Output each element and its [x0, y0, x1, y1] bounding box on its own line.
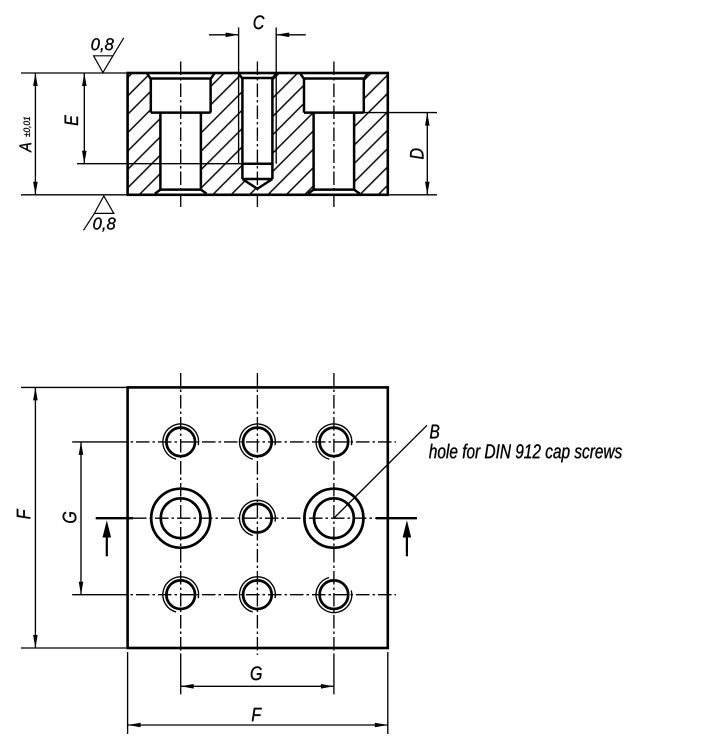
leader line to hole B [334, 425, 427, 518]
thread major dia lines (thin) [238, 74, 240, 164]
right counterbored hole (section) [300, 74, 367, 113]
dimension F bottom [127, 652, 129, 734]
dimension A ±0,01 [34, 73, 36, 195]
section cutting plane right [376, 517, 417, 519]
dimension F left [21, 386, 126, 388]
plan view plate outline [128, 387, 388, 648]
G extension lines below plate [180, 655, 182, 694]
section centrelines [180, 62, 182, 209]
plan column centrelines [180, 373, 182, 655]
surface finish symbol 0,8 top [94, 38, 124, 73]
dimension G left [80, 442, 82, 595]
dimension D (counterbore depth side) [364, 112, 437, 114]
label B [430, 425, 439, 439]
centre threaded hole (section) [239, 74, 277, 179]
section view part outline [128, 73, 388, 195]
section view hatched cross-section [128, 73, 388, 195]
extension lines for A dimension [21, 72, 126, 74]
left counterbored hole (section) [147, 74, 214, 113]
dimension E (thread depth) [77, 163, 242, 165]
note: hole for DIN 912 cap screws [429, 444, 622, 463]
plan row centrelines [72, 441, 114, 443]
section cutting plane left [96, 517, 133, 519]
dimension C (thread size) [238, 28, 240, 73]
thread end line [242, 162, 272, 165]
surface finish symbol 0,8 bottom [84, 196, 114, 230]
small threaded holes (plan) [166, 428, 195, 457]
counterbored holes B (plan) [151, 489, 210, 548]
dimension G bottom [181, 685, 334, 687]
